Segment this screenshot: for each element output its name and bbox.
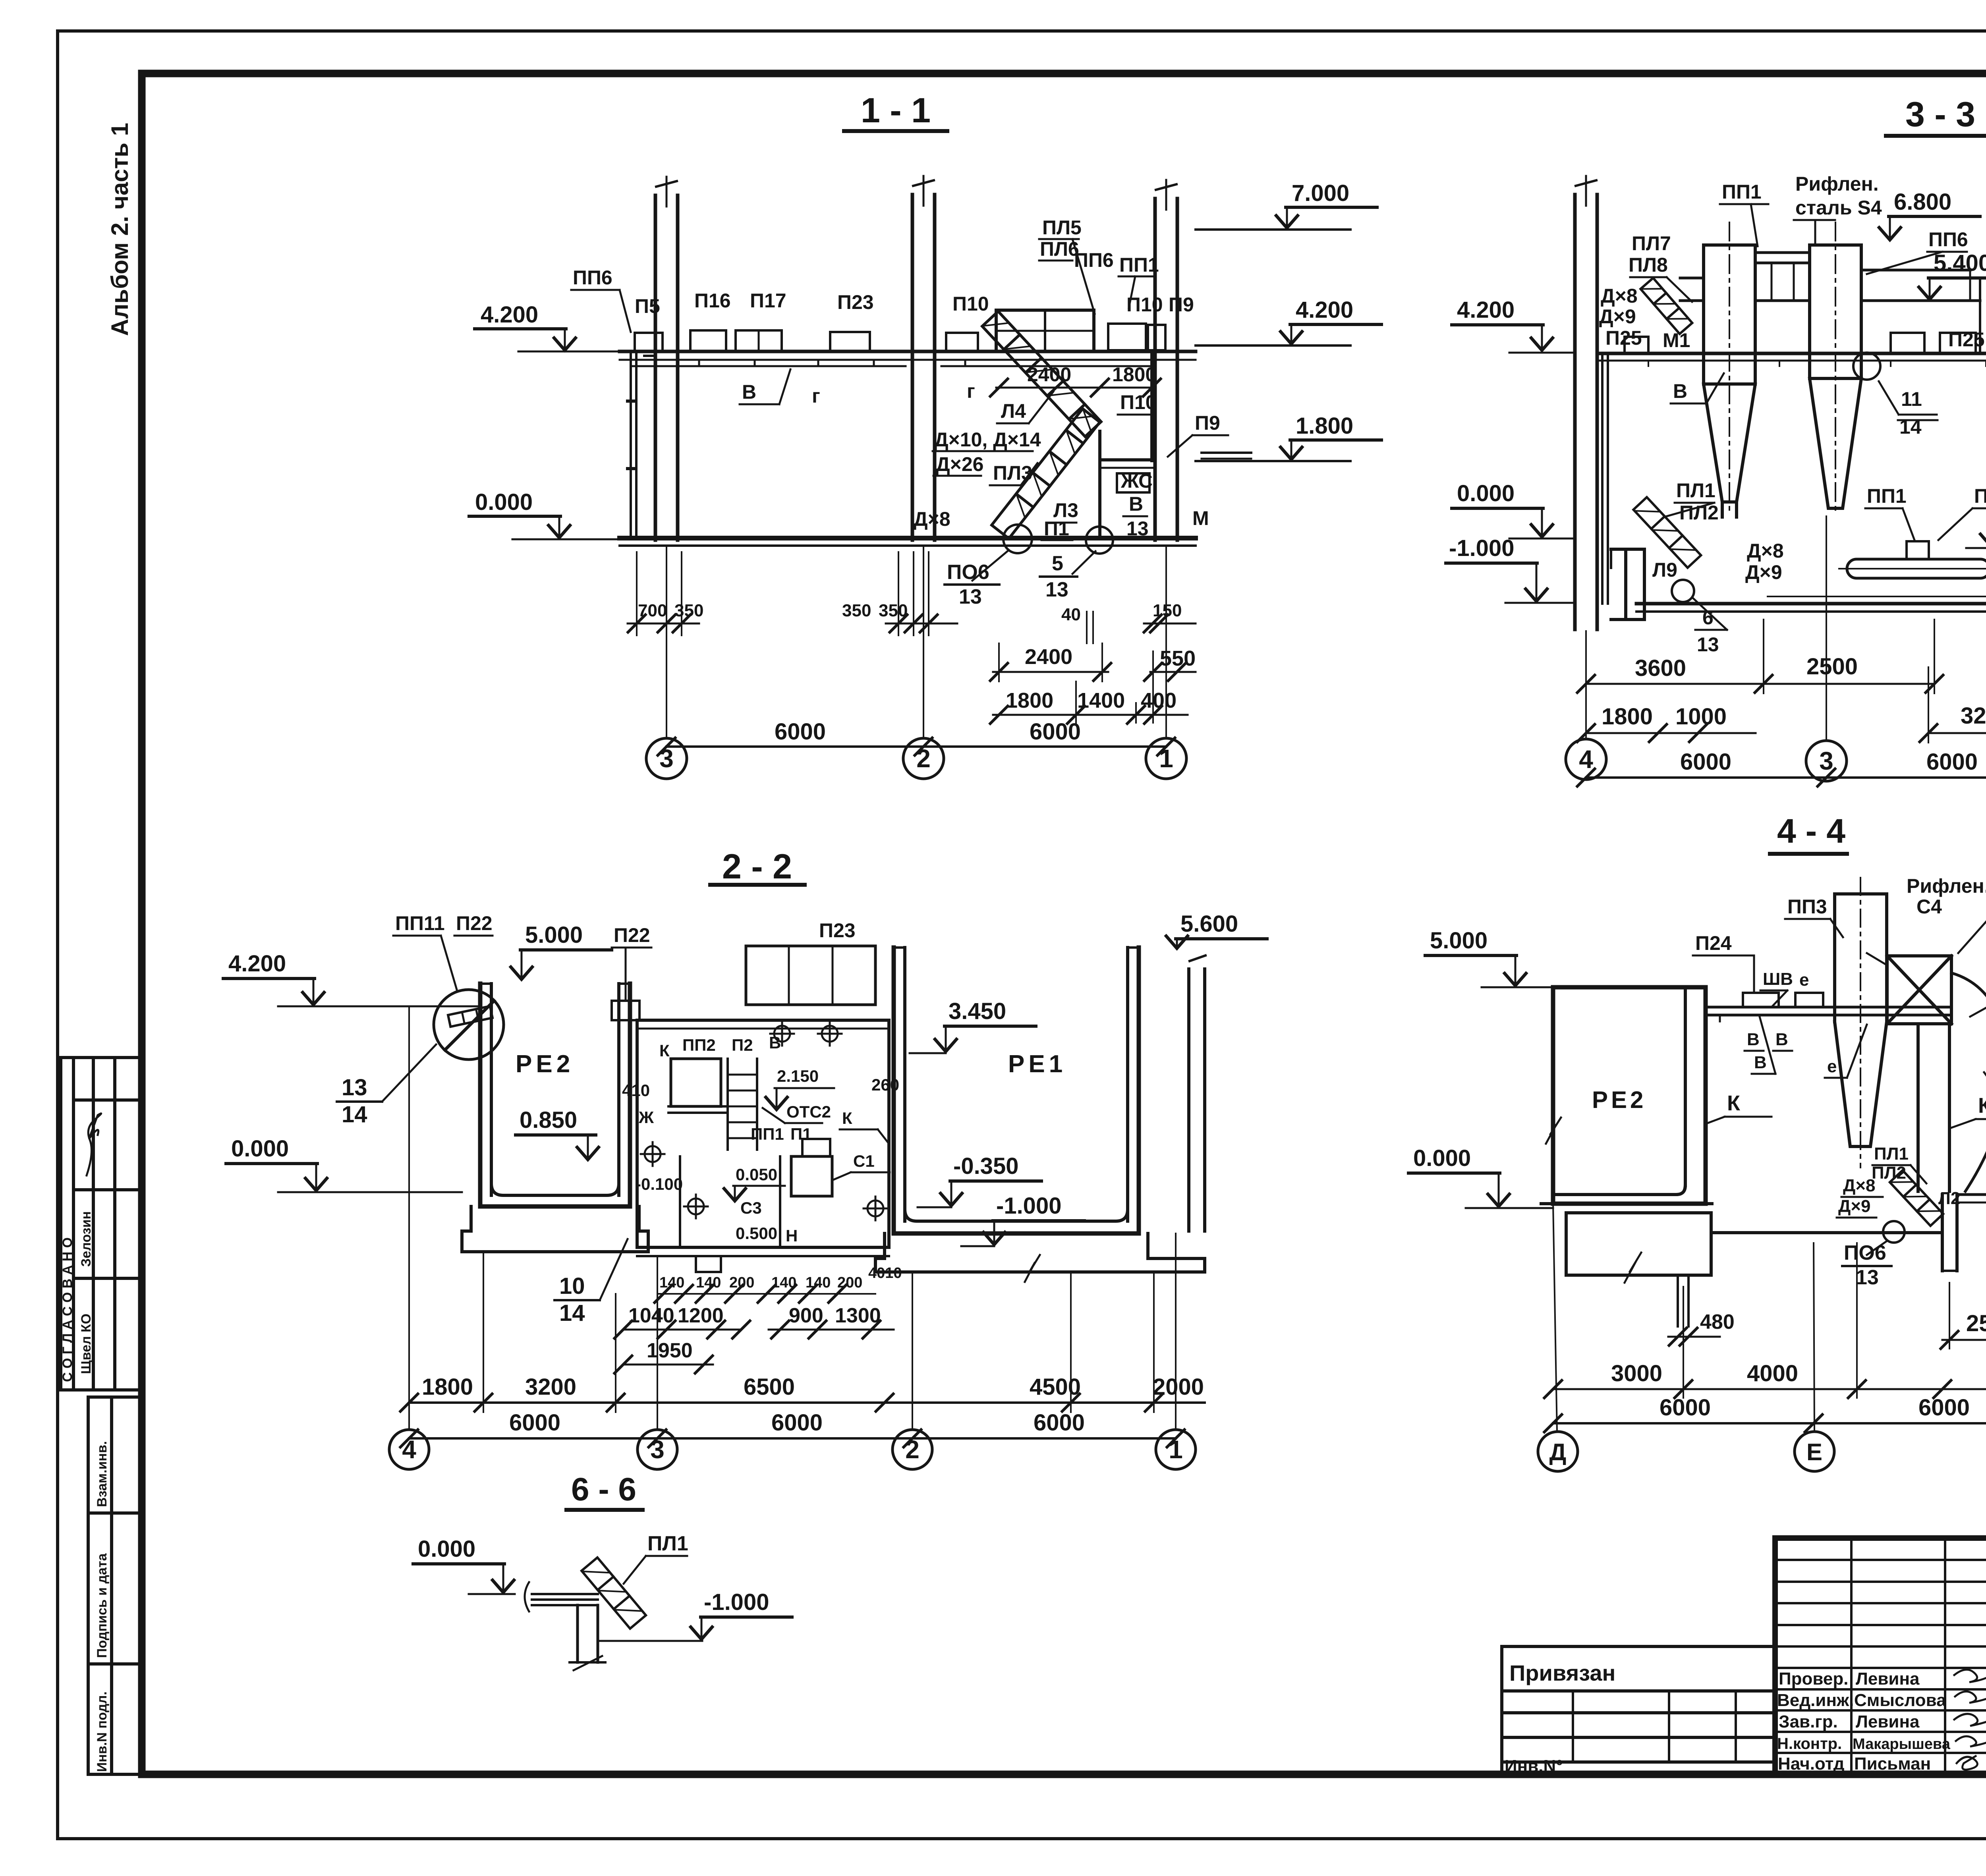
svg-text:ПП6: ПП6: [1074, 249, 1114, 271]
svg-text:4: 4: [402, 1435, 416, 1464]
svg-text:0.500: 0.500: [736, 1224, 777, 1243]
svg-text:3: 3: [1819, 747, 1833, 775]
svg-text:5.000: 5.000: [525, 922, 583, 948]
wall left bay 1-1: [628, 353, 636, 538]
level 1.800 right: [1196, 413, 1381, 461]
stair lower flight: [992, 409, 1100, 538]
svg-text:В: В: [769, 1033, 781, 1052]
svg-text:ПО6: ПО6: [1844, 1241, 1886, 1264]
svg-text:П23: П23: [837, 291, 874, 313]
arm (6-6): [525, 1582, 598, 1612]
svg-text:ПП3: ПП3: [1787, 896, 1827, 918]
cyclone ПП3 (4-4): [1835, 878, 1887, 1168]
labels ПП3 Рифлен С4 ПП8 (4-4): [1787, 875, 1986, 918]
svg-text:Д×8: Д×8: [1601, 285, 1638, 307]
svg-text:5: 5: [1052, 552, 1063, 575]
svg-text:С О Г Л А С О В А Н О: С О Г Л А С О В А Н О: [60, 1237, 75, 1382]
svg-text:Д×8: Д×8: [1843, 1176, 1876, 1195]
svg-text:М1: М1: [1663, 329, 1690, 351]
signatures: [1954, 1669, 1986, 1770]
chute ПЛ1 ПЛ2 (4-4): [1890, 1170, 1943, 1226]
small labels inside (2-2): [622, 1033, 899, 1245]
svg-text:П22: П22: [456, 912, 493, 934]
right column stub above PE1 (2-2): [1189, 955, 1206, 1231]
К labels (4-4): [1706, 1091, 1986, 1128]
level 4.200 left (3-3): [1452, 297, 1575, 353]
svg-text:П24: П24: [1695, 932, 1732, 954]
section title 4-4: [1770, 812, 1847, 854]
level 5.000 (2-2): [511, 922, 612, 979]
level 3.450 (2-2): [910, 998, 1036, 1053]
svg-text:1.800: 1.800: [1296, 413, 1353, 439]
svg-text:13: 13: [342, 1075, 367, 1100]
svg-text:ПЛ7: ПЛ7: [1632, 232, 1671, 255]
svg-text:Д×26: Д×26: [936, 453, 983, 475]
svg-text:4.200: 4.200: [1296, 297, 1353, 323]
level -1.000 (2-2): [961, 1193, 1084, 1246]
svg-text:140: 140: [659, 1274, 684, 1291]
axis bubbles 2-2: [389, 1006, 429, 1469]
svg-text:К: К: [659, 1041, 670, 1060]
svg-text:ПП6: ПП6: [1928, 228, 1968, 251]
svg-text:В: В: [742, 381, 756, 403]
label underlines / leaders 1-1: [571, 239, 1228, 540]
svg-text:Рифлен.-сталь: Рифлен.-сталь: [1907, 875, 1986, 897]
svg-text:1800: 1800: [1602, 704, 1653, 730]
svg-text:40: 40: [1061, 605, 1081, 624]
svg-text:13: 13: [1697, 633, 1719, 656]
svg-text:-0.350: -0.350: [953, 1153, 1018, 1179]
LEFT MARGIN STAMP TABLE 1: [61, 1058, 141, 1390]
fraction 10/14 (2-2): [554, 1239, 628, 1326]
svg-text:сталь S4: сталь S4: [1795, 197, 1882, 219]
svg-text:ПП1: ПП1: [1722, 181, 1762, 203]
svg-text:Рифлен.: Рифлен.: [1795, 173, 1879, 195]
svg-text:ПЛ1: ПЛ1: [647, 1532, 688, 1555]
svg-text:4.200: 4.200: [1457, 297, 1515, 323]
level 7.000 right: [1196, 180, 1377, 230]
svg-text:4.200: 4.200: [228, 951, 286, 977]
leaders 3-3: [1630, 204, 1986, 630]
svg-text:13: 13: [1126, 517, 1149, 540]
dim row C 1-1: [990, 681, 1188, 724]
tank PE2 (2-2): [462, 984, 648, 1252]
svg-text:1300: 1300: [835, 1304, 881, 1327]
dim 2520 (4-4): [1941, 1283, 1986, 1349]
level 4.200 right: [1196, 297, 1381, 345]
svg-text:1400: 1400: [1077, 689, 1125, 712]
svg-text:П10: П10: [952, 293, 989, 315]
svg-text:В: В: [1747, 1030, 1760, 1049]
level 0.000 left (3-3): [1452, 481, 1575, 538]
svg-text:1: 1: [1169, 1435, 1183, 1464]
section title 6-6: [566, 1471, 643, 1510]
fraction 13/14 (2-2): [337, 1044, 436, 1127]
svg-text:П22: П22: [614, 924, 650, 946]
svg-text:0.000: 0.000: [1457, 481, 1515, 506]
svg-text:6000: 6000: [509, 1410, 560, 1436]
svg-text:К: К: [1727, 1091, 1741, 1115]
dim 1950 (2-2): [614, 1339, 713, 1373]
svg-text:Ж: Ж: [638, 1108, 654, 1127]
floor slab 4.200: [620, 351, 1196, 366]
svg-text:ПЛ5: ПЛ5: [1042, 216, 1082, 239]
chute labels (4-4): [1838, 1144, 1960, 1216]
basement floor (3-3): [1636, 596, 1986, 612]
svg-text:2: 2: [916, 744, 931, 773]
svg-text:Щвел КО: Щвел КО: [79, 1314, 94, 1374]
svg-text:Левина: Левина: [1856, 1669, 1920, 1689]
svg-text:Смыслова: Смыслова: [1854, 1691, 1946, 1710]
labels row 1-1: [573, 216, 1220, 540]
svg-text:1800: 1800: [1006, 689, 1053, 712]
svg-text:14: 14: [559, 1300, 585, 1326]
svg-text:П23: П23: [819, 919, 856, 942]
section title 3-3: [1886, 95, 1986, 136]
svg-text:7.000: 7.000: [1292, 180, 1349, 206]
column axis 3: [644, 177, 686, 540]
svg-text:ПО6: ПО6: [947, 561, 989, 584]
level 0.850 (2-2): [516, 1107, 599, 1160]
svg-text:П25: П25: [1948, 328, 1985, 351]
svg-text:3: 3: [650, 1435, 665, 1464]
svg-text:ПП1: ПП1: [1867, 485, 1907, 507]
grid table: [1775, 1538, 1986, 1774]
svg-text:1950: 1950: [647, 1339, 693, 1362]
svg-text:Д×9: Д×9: [1745, 561, 1782, 583]
dim 480 (4-4): [1668, 1310, 1735, 1345]
post (6-6): [570, 1605, 605, 1670]
section title 1-1: [844, 91, 947, 131]
svg-text:Л9: Л9: [1652, 559, 1677, 581]
svg-text:П25: П25: [1605, 327, 1642, 349]
svg-text:Привязан: Привязан: [1509, 1660, 1615, 1685]
svg-text:3000: 3000: [1611, 1361, 1662, 1386]
level 5.400: [1919, 250, 1986, 299]
level 5.600 right (2-2): [1166, 911, 1267, 948]
dim row 6000 1-1: [658, 719, 1175, 755]
svg-text:5.000: 5.000: [1430, 928, 1488, 953]
svg-text:ПЛ1: ПЛ1: [1676, 479, 1716, 502]
svg-text:П17: П17: [750, 290, 786, 312]
level 0.000 left (2-2): [226, 1136, 462, 1192]
svg-text:г: г: [812, 385, 820, 407]
svg-text:3200: 3200: [525, 1374, 576, 1400]
svg-text:3 - 3: 3 - 3: [1905, 95, 1975, 134]
brace ПЛ7 ПЛ8 hatched: [1640, 278, 1692, 334]
level -0.350 (2-2): [918, 1153, 1041, 1207]
foundation (4-4): [1541, 1204, 1712, 1326]
svg-text:1800: 1800: [422, 1374, 473, 1400]
personnel names: [1777, 1669, 1951, 1774]
svg-text:1200: 1200: [678, 1304, 724, 1327]
svg-text:2500: 2500: [1806, 654, 1858, 679]
svg-text:Альбом 2. часть 1: Альбом 2. часть 1: [106, 123, 133, 336]
svg-text:Д×8: Д×8: [1747, 540, 1784, 562]
svg-text:РЕ2: РЕ2: [516, 1050, 574, 1078]
svg-text:Д×9: Д×9: [1599, 305, 1636, 328]
svg-text:К: К: [1978, 1094, 1986, 1117]
label П24 (4-4): [1693, 932, 1754, 993]
svg-text:Инв.N°: Инв.N°: [1505, 1756, 1563, 1776]
equipment internals (2-2): [668, 1059, 832, 1247]
level 6.800: [1879, 189, 1980, 240]
svg-text:0.000: 0.000: [475, 489, 533, 515]
svg-text:4010: 4010: [868, 1265, 902, 1282]
roof panel П10: [946, 333, 978, 351]
dim row 6000 3-3: [1577, 749, 1986, 786]
svg-text:Нач.отд: Нач.отд: [1778, 1754, 1845, 1774]
svg-text:2 - 2: 2 - 2: [722, 847, 792, 886]
stair head enclosure ПП1: [996, 310, 1094, 351]
svg-text:6000: 6000: [1660, 1395, 1711, 1421]
dim 3000 4000 3200 (4-4): [1611, 1361, 1986, 1387]
svg-text:П2: П2: [732, 1036, 753, 1054]
svg-text:Д×10, Д×14: Д×10, Д×14: [934, 428, 1041, 451]
svg-text:0.850: 0.850: [520, 1107, 577, 1133]
label ПЛ1 (6-6): [624, 1532, 688, 1584]
dim row A 1-1: [628, 552, 1196, 643]
svg-text:Письман: Письман: [1854, 1754, 1931, 1774]
svg-text:ШВ: ШВ: [1763, 969, 1793, 989]
cyclone 2: [1810, 222, 1861, 515]
equipment room box (2-2): [637, 1020, 889, 1272]
svg-text:-1.000: -1.000: [1449, 535, 1514, 561]
svg-text:Провер.: Провер.: [1779, 1669, 1848, 1689]
svg-text:ПЛ1: ПЛ1: [1874, 1144, 1909, 1164]
level 5.000 (4-4): [1425, 928, 1553, 987]
svg-text:2520: 2520: [1966, 1310, 1986, 1336]
svg-text:С3: С3: [740, 1199, 762, 1217]
svg-text:Л4: Л4: [1001, 400, 1026, 422]
svg-text:6000: 6000: [771, 1410, 823, 1436]
platform slab 4.200 (3-3): [1597, 353, 1986, 366]
svg-text:Зав.гр.: Зав.гр.: [1779, 1712, 1838, 1731]
svg-text:6000: 6000: [1680, 749, 1731, 775]
level 4.200 left (2-2): [223, 951, 480, 1006]
svg-text:-1.000: -1.000: [996, 1193, 1061, 1219]
column axis 1: [1155, 180, 1177, 540]
fraction 12/14 (4-4): [1984, 1064, 1986, 1117]
svg-text:4: 4: [1579, 745, 1593, 774]
svg-text:ПП1: ПП1: [1974, 485, 1986, 507]
ground slab 0.000: [620, 538, 1196, 546]
svg-text:6 - 6: 6 - 6: [571, 1471, 636, 1507]
svg-text:П5: П5: [635, 295, 660, 317]
svg-text:5.600: 5.600: [1180, 911, 1238, 937]
dim 6000 6000 (4-4): [1660, 1395, 1970, 1421]
tank PE2 (4-4): [1546, 987, 1706, 1204]
svg-text:5.400: 5.400: [1934, 250, 1986, 276]
svg-text:14: 14: [342, 1102, 367, 1127]
level -1.000 left (3-3): [1446, 535, 1575, 603]
dim row1 3-3: [1577, 620, 1943, 693]
svg-text:1800: 1800: [1112, 363, 1156, 386]
left pit (3-3): [1611, 549, 1644, 620]
svg-text:ПЛ8: ПЛ8: [1629, 254, 1668, 276]
svg-text:6.800: 6.800: [1894, 189, 1951, 215]
chute circle detail (3-3): [1672, 580, 1694, 602]
svg-text:Левина: Левина: [1856, 1712, 1920, 1731]
stair upper flight: [982, 311, 1101, 436]
detail circle 5/13: [972, 525, 1113, 581]
svg-text:1 - 1: 1 - 1: [861, 91, 931, 130]
roof panel П10 right: [1108, 324, 1146, 350]
svg-text:1: 1: [1159, 744, 1173, 773]
level 4.200 left: [475, 302, 620, 351]
svg-text:2: 2: [905, 1435, 920, 1464]
bridge between cyclones: [1680, 253, 1980, 353]
svg-text:С1: С1: [853, 1152, 875, 1170]
axis bubbles 3-3: [1566, 631, 1606, 780]
svg-text:М: М: [1192, 507, 1209, 529]
level 0.050 (3-3): [1966, 496, 1986, 548]
svg-text:6000: 6000: [1030, 719, 1081, 745]
roof panel П16: [690, 330, 726, 351]
svg-text:10: 10: [559, 1273, 585, 1299]
landing platform 1.800: [1101, 453, 1251, 468]
svg-text:0.000: 0.000: [231, 1136, 289, 1162]
svg-text:6000: 6000: [775, 719, 826, 745]
svg-text:3250: 3250: [1961, 703, 1986, 729]
svg-text:2.150: 2.150: [777, 1067, 819, 1085]
svg-text:Вед.инж.: Вед.инж.: [1777, 1691, 1854, 1710]
svg-text:В: В: [1754, 1053, 1767, 1072]
svg-text:Зелозин: Зелозин: [79, 1211, 94, 1267]
svg-text:Подпись и дата: Подпись и дата: [95, 1553, 110, 1658]
svg-text:РЕ1: РЕ1: [1008, 1050, 1066, 1078]
svg-text:Д×9: Д×9: [1838, 1197, 1871, 1216]
roof panels П23 (2-2): [746, 946, 875, 1005]
basement floor (4-4): [1711, 1195, 1986, 1271]
svg-text:200: 200: [729, 1274, 754, 1291]
svg-text:ОТС2: ОТС2: [786, 1102, 831, 1121]
svg-text:Д: Д: [1549, 1439, 1567, 1465]
svg-text:140: 140: [806, 1274, 831, 1291]
roof panel П9: [1148, 325, 1165, 350]
small dims row (2-2): [659, 1265, 902, 1291]
label ПП11 П22 top (2-2): [395, 912, 856, 946]
svg-text:550: 550: [1160, 647, 1196, 670]
signature squiggle: [87, 1114, 101, 1175]
level 0.000 left: [469, 489, 620, 539]
svg-text:Инв.N подл.: Инв.N подл.: [95, 1691, 110, 1772]
svg-text:П9: П9: [1169, 293, 1194, 316]
level 0.000 (6-6): [413, 1536, 515, 1594]
right pipe and curve (4-4): [1918, 973, 1986, 1191]
svg-text:Н: Н: [786, 1226, 798, 1245]
level -1.000 (6-6): [599, 1589, 792, 1641]
svg-text:е: е: [1799, 970, 1809, 990]
svg-text:3.450: 3.450: [949, 998, 1006, 1024]
conveyor (3-3): [1839, 541, 1986, 578]
svg-text:4.200: 4.200: [481, 302, 538, 328]
svg-text:6000: 6000: [1034, 1410, 1085, 1436]
svg-text:г: г: [967, 380, 975, 402]
svg-text:6500: 6500: [744, 1374, 795, 1400]
svg-text:Е: Е: [1806, 1439, 1822, 1465]
svg-text:260: 260: [871, 1075, 899, 1094]
svg-text:В: В: [1673, 380, 1687, 402]
big dim row (2-2): [422, 1374, 1204, 1400]
svg-text:2400: 2400: [1027, 363, 1071, 386]
crosshair marks (2-2): [641, 1022, 887, 1220]
axis bubbles 1-1: [646, 546, 687, 779]
svg-text:ПП1: ПП1: [751, 1125, 784, 1143]
svg-text:13: 13: [1045, 578, 1068, 601]
svg-text:3600: 3600: [1635, 655, 1686, 681]
svg-text:П10: П10: [1120, 391, 1157, 413]
svg-text:13: 13: [959, 585, 982, 608]
tank PE1 (2-2): [875, 948, 1205, 1282]
svg-text:0.000: 0.000: [418, 1536, 475, 1562]
svg-text:1000: 1000: [1675, 704, 1727, 730]
panel П22 (2-2): [612, 1001, 639, 1020]
svg-text:П9: П9: [1195, 412, 1220, 434]
svg-text:РЕ2: РЕ2: [1592, 1087, 1646, 1113]
column axis 4 (3-3): [1575, 176, 1597, 629]
svg-text:Н.контр.: Н.контр.: [1777, 1735, 1842, 1752]
fraction labels ПО6/13 and 5/13: [947, 552, 1068, 608]
svg-text:ПП2: ПП2: [682, 1036, 716, 1054]
svg-text:К: К: [842, 1109, 852, 1127]
svg-text:-1.000: -1.000: [704, 1589, 769, 1615]
level 0.000 (4-4): [1408, 1145, 1553, 1208]
stair landing wall: [1100, 353, 1152, 538]
chute ПЛ1 (6-6): [582, 1558, 646, 1629]
svg-text:В: В: [1129, 493, 1143, 515]
platform beam (4-4): [1706, 993, 1951, 1021]
column axis 2: [904, 176, 943, 540]
svg-text:ПП1: ПП1: [1119, 254, 1159, 276]
roof panel П23: [830, 332, 870, 351]
svg-text:ПЛ2: ПЛ2: [1679, 502, 1719, 524]
svg-text:2400: 2400: [1025, 645, 1072, 669]
svg-text:П1: П1: [790, 1125, 812, 1143]
svg-text:ПП11: ПП11: [395, 912, 445, 934]
svg-text:0.050: 0.050: [736, 1165, 777, 1184]
svg-text:410: 410: [622, 1081, 650, 1100]
svg-text:ПЛ3: ПЛ3: [993, 462, 1032, 484]
LEFT MARGIN STAMP TABLE 2: [88, 1397, 141, 1774]
svg-text:ПП6: ПП6: [573, 266, 612, 289]
svg-text:4000: 4000: [1747, 1361, 1798, 1386]
panels П25 П17 П22: [1625, 333, 1986, 353]
detail circle and ПО6/13 (4-4): [1842, 1221, 1905, 1289]
detail circle 13/14 (2-2): [434, 990, 504, 1060]
svg-text:П1: П1: [1044, 517, 1069, 540]
svg-text:4 - 4: 4 - 4: [1777, 812, 1845, 850]
labels 3-3: [1599, 173, 1986, 656]
svg-text:900: 900: [789, 1304, 823, 1327]
svg-text:350: 350: [842, 601, 871, 620]
svg-text:е: е: [1827, 1057, 1837, 1076]
axis bubbles 4-4: [1538, 1204, 1578, 1471]
X-braced box (4-4): [1887, 956, 1951, 1024]
В labels under beam (4-4): [1747, 969, 1837, 1076]
section title 2-2: [710, 847, 805, 886]
cyclone 1: [1704, 222, 1755, 517]
svg-text:Д×8: Д×8: [914, 508, 950, 530]
svg-text:6000: 6000: [1918, 1395, 1970, 1421]
svg-text:Макарышева: Макарышева: [1853, 1736, 1951, 1752]
svg-text:6000: 6000: [1926, 749, 1978, 775]
dim row2 3-3: [1577, 667, 1986, 743]
inner dim line 2400 1800: [990, 379, 1161, 396]
dims 1040 1200 900 1300 (2-2): [628, 1304, 881, 1327]
svg-text:0.000: 0.000: [1413, 1145, 1471, 1171]
svg-text:480: 480: [1700, 1310, 1735, 1334]
